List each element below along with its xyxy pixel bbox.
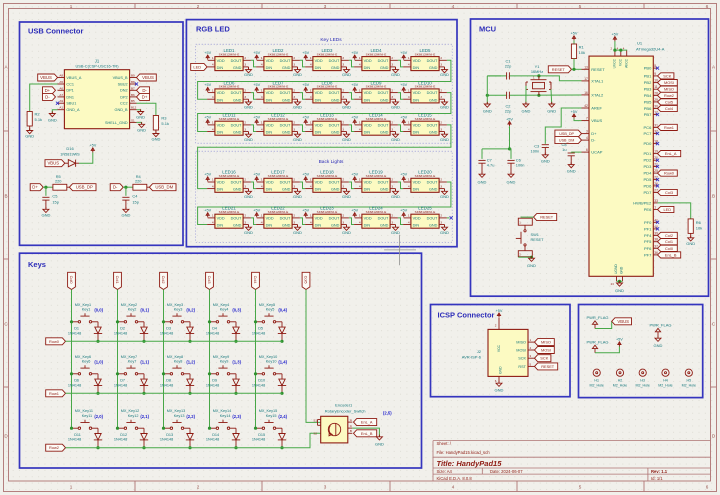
- svg-text:D2: D2: [120, 327, 125, 331]
- svg-text:Rev: 1.1: Rev: 1.1: [651, 469, 668, 474]
- svg-text:XTAL1: XTAL1: [591, 78, 604, 83]
- svg-text:4: 4: [212, 63, 214, 67]
- svg-text:2: 2: [440, 88, 442, 92]
- power +5V: [351, 116, 358, 125]
- power +5V: [351, 51, 358, 60]
- connector J2 AVR-ISP-6: [462, 318, 535, 383]
- junction: [234, 446, 237, 449]
- svg-text:A7: A7: [59, 93, 63, 97]
- ground: [244, 67, 253, 77]
- svg-text:ATmega32U4-A: ATmega32U4-A: [636, 47, 665, 52]
- svg-text:Col4: Col4: [665, 106, 674, 111]
- svg-text:10k: 10k: [696, 226, 702, 231]
- svg-text:M2_Hole: M2_Hole: [590, 383, 604, 387]
- svg-text:PWR_FLAG: PWR_FLAG: [586, 315, 608, 320]
- svg-text:+5V: +5V: [616, 338, 623, 342]
- wire DOUT to next DIN: [349, 125, 354, 132]
- svg-text:D7: D7: [120, 379, 125, 383]
- svg-text:MOSI: MOSI: [664, 80, 674, 85]
- svg-text:4: 4: [310, 127, 312, 131]
- net label D- (J1 left): [43, 93, 56, 100]
- svg-text:Col3: Col3: [207, 276, 212, 284]
- capacitor C7 4.7u: [478, 149, 494, 168]
- LED LED11 SK6812MINI-E: [207, 113, 251, 136]
- wire DOUT to next DIN: [398, 60, 403, 67]
- wire crystal case to ground: [525, 86, 527, 104]
- connector J1 USB-C(CSP-USC16-TR): [58, 58, 137, 128]
- svg-text:VDD: VDD: [413, 59, 421, 63]
- svg-text:22p: 22p: [505, 108, 512, 113]
- svg-text:SK6812MINI-E: SK6812MINI-E: [219, 210, 240, 214]
- svg-text:DOUT: DOUT: [231, 91, 242, 95]
- junction: [254, 427, 257, 430]
- net label EnL_B (U1 PF7): [658, 252, 681, 258]
- svg-text:Key8: Key8: [174, 359, 183, 363]
- svg-text:SK6812MINI-E: SK6812MINI-E: [366, 117, 387, 121]
- svg-text:5: 5: [579, 485, 582, 490]
- svg-text:3: 3: [391, 184, 393, 188]
- svg-text:Col0: Col0: [665, 246, 674, 251]
- wire DOUT to next DIN: [251, 182, 256, 189]
- mounting hole H4 M2_Hole: [658, 369, 672, 387]
- svg-text:42: 42: [584, 104, 588, 108]
- svg-text:Date: 2024-06-07: Date: 2024-06-07: [490, 469, 523, 474]
- svg-text:16MHz: 16MHz: [531, 69, 543, 74]
- svg-text:PF4: PF4: [644, 233, 652, 238]
- svg-text:EnL_A: EnL_A: [665, 151, 677, 156]
- wire R1 to RESET net: [573, 59, 575, 70]
- svg-text:3: 3: [293, 220, 295, 224]
- switch MX_Key7 Key7: [118, 355, 145, 379]
- svg-text:DN1: DN1: [66, 95, 74, 99]
- svg-text:GND: GND: [380, 224, 389, 228]
- svg-text:DOUT: DOUT: [231, 216, 242, 220]
- LED LED16 SK6812MINI-E: [207, 170, 251, 193]
- svg-text:3: 3: [342, 127, 344, 131]
- svg-text:3: 3: [342, 63, 344, 67]
- svg-text:R3: R3: [161, 116, 167, 121]
- svg-text:GND_B: GND_B: [115, 108, 129, 112]
- svg-text:1N4148: 1N4148: [252, 438, 265, 442]
- svg-text:3: 3: [391, 63, 393, 67]
- power +5V: [253, 173, 260, 182]
- svg-text:2: 2: [293, 214, 295, 218]
- svg-text:GND: GND: [342, 137, 351, 142]
- svg-text:J1: J1: [95, 58, 100, 63]
- svg-text:DOUT: DOUT: [427, 91, 438, 95]
- net label USB_DP (U1): [555, 130, 582, 137]
- LED LED25 SK6812MINI-E: [403, 206, 447, 229]
- svg-text:+5V: +5V: [204, 209, 211, 213]
- diode D11 1N4148: [68, 433, 102, 448]
- no-connect: [135, 82, 138, 85]
- svg-text:3: 3: [342, 184, 344, 188]
- svg-text:D6: D6: [74, 379, 79, 383]
- svg-text:+5V: +5V: [400, 116, 407, 120]
- wire +5V to VBUS pin: [574, 119, 582, 121]
- svg-text:MISO: MISO: [541, 340, 551, 345]
- svg-text:XTAL2: XTAL2: [591, 92, 604, 97]
- svg-text:GND: GND: [499, 366, 503, 374]
- ground: [686, 236, 695, 246]
- svg-text:AVR-ISP-6: AVR-ISP-6: [462, 355, 482, 360]
- svg-text:1: 1: [310, 121, 312, 125]
- svg-text:9: 9: [654, 72, 656, 76]
- wire DOUT to next DIN: [398, 125, 403, 132]
- svg-text:GND: GND: [137, 127, 146, 132]
- svg-text:1: 1: [212, 56, 214, 60]
- svg-text:2: 2: [244, 88, 246, 92]
- svg-text:D3: D3: [166, 327, 171, 331]
- svg-text:S2: S2: [313, 431, 317, 435]
- svg-text:GND: GND: [483, 108, 492, 113]
- power +5V: [302, 173, 309, 182]
- svg-text:GND: GND: [233, 98, 242, 102]
- switch MX_Key15 Key15: [256, 409, 283, 433]
- net label Row2 (U1 PB4): [658, 92, 678, 98]
- ground: [547, 102, 556, 114]
- wire XTAL2 net: [487, 94, 506, 96]
- svg-text:PD5: PD5: [644, 177, 653, 182]
- svg-text:2: 2: [244, 178, 246, 182]
- svg-text:1: 1: [654, 206, 656, 210]
- svg-text:PF6: PF6: [644, 246, 652, 251]
- svg-text:MX_Key6: MX_Key6: [75, 355, 91, 359]
- switch MX_Key2 Key2: [118, 303, 145, 327]
- wire column Col5 to encoder: [306, 290, 321, 423]
- wire HWB/PE2 to R6: [658, 203, 691, 219]
- diode D8 1N4148: [160, 379, 194, 394]
- ground: [244, 132, 253, 142]
- wire row Row1: [66, 392, 283, 394]
- LED LED12 SK6812MINI-E: [256, 113, 300, 136]
- svg-text:USB_DM: USB_DM: [155, 185, 173, 190]
- svg-text:GND: GND: [244, 72, 253, 77]
- svg-text:R2: R2: [35, 112, 41, 117]
- svg-text:2: 2: [391, 56, 393, 60]
- svg-text:PB7: PB7: [644, 112, 652, 117]
- svg-text:1N4148: 1N4148: [160, 331, 173, 335]
- svg-text:Col5: Col5: [665, 99, 673, 104]
- junction: [280, 392, 283, 395]
- svg-text:3: 3: [244, 220, 246, 224]
- svg-text:VDD: VDD: [364, 91, 372, 95]
- svg-text:100n: 100n: [516, 163, 525, 168]
- pin numbers LED14: [359, 121, 393, 132]
- pin numbers LED4: [359, 56, 393, 67]
- svg-text:MX_Key13: MX_Key13: [167, 409, 186, 413]
- wire D- to R4: [123, 186, 133, 188]
- svg-text:RESET: RESET: [591, 67, 605, 72]
- LED LED10 SK6812MINI-E: [403, 80, 447, 103]
- junction: [254, 320, 257, 323]
- wire column Col0: [71, 290, 73, 429]
- ground: [391, 67, 400, 77]
- svg-text:VDD: VDD: [217, 59, 225, 63]
- svg-text:Key11: Key11: [82, 414, 92, 418]
- svg-text:PB1: PB1: [644, 73, 652, 78]
- resistor R2 5.1k: [27, 112, 42, 131]
- svg-text:GND: GND: [151, 137, 160, 142]
- ground: [342, 189, 351, 199]
- wire PWR_FLAG to +5V: [595, 347, 619, 353]
- power +5V: [253, 51, 260, 60]
- svg-text:SK6812MINI-E: SK6812MINI-E: [219, 85, 240, 89]
- junction: [234, 340, 237, 343]
- diode D10 1N4148: [252, 379, 286, 394]
- svg-text:H4: H4: [663, 379, 668, 383]
- LED LED13 SK6812MINI-E: [305, 113, 349, 136]
- svg-text:GND: GND: [282, 224, 291, 228]
- svg-text:GND: GND: [342, 105, 351, 110]
- svg-text:4: 4: [408, 63, 410, 67]
- junction: [162, 372, 165, 375]
- net label SCK (U1 PB1): [658, 73, 674, 79]
- svg-text:VDD: VDD: [315, 59, 323, 63]
- net label VBUS (flag): [612, 318, 632, 325]
- ground: [342, 132, 351, 142]
- svg-text:6: 6: [706, 4, 709, 9]
- net label Row1 (row): [46, 390, 66, 397]
- svg-text:VDD: VDD: [217, 91, 225, 95]
- IC U1 ATmega32U4-A: [589, 40, 665, 276]
- power +5V: [616, 338, 623, 347]
- svg-text:UVCC: UVCC: [613, 58, 617, 68]
- net label Col0 (U1 PF6): [658, 245, 678, 251]
- net label Col3 (U1 PD7): [658, 189, 678, 195]
- diode D9 1N4148: [206, 379, 240, 394]
- svg-text:GND: GND: [547, 108, 556, 113]
- wire DOUT to next DIN: [398, 182, 403, 189]
- svg-text:PF0: PF0: [644, 220, 652, 225]
- ground: [440, 225, 449, 235]
- svg-text:LED: LED: [664, 207, 672, 212]
- svg-text:A5: A5: [59, 80, 63, 84]
- svg-text:M2_Hole: M2_Hole: [613, 383, 627, 387]
- svg-text:D13: D13: [166, 433, 173, 437]
- wire row wrap: [198, 60, 451, 99]
- capacitor: [542, 145, 549, 148]
- svg-text:DIN: DIN: [217, 131, 224, 135]
- svg-text:DIN: DIN: [266, 224, 273, 228]
- svg-text:PF1: PF1: [644, 226, 652, 231]
- svg-text:4: 4: [452, 4, 455, 9]
- svg-text:D10: D10: [258, 379, 265, 383]
- svg-text:MX_Key3: MX_Key3: [167, 303, 183, 307]
- switch MX_Key10 Key10: [256, 355, 283, 379]
- svg-text:GND: GND: [282, 188, 291, 192]
- svg-text:M2_Hole: M2_Hole: [636, 383, 650, 387]
- svg-text:23: 23: [611, 282, 615, 286]
- junction: [572, 68, 575, 71]
- svg-text:5: 5: [579, 4, 582, 9]
- svg-text:1: 1: [408, 88, 410, 92]
- svg-text:GND: GND: [527, 263, 536, 268]
- power flag PWR_FLAG (VBUS): [586, 315, 608, 329]
- net label LED (U1 PE6): [658, 206, 674, 212]
- section box USB Connector: [20, 22, 184, 245]
- power +5V: [496, 309, 503, 318]
- ground: [527, 256, 536, 268]
- wire to ground: [619, 281, 621, 283]
- mounting hole H3 M2_Hole: [636, 369, 650, 387]
- wire D- to C4: [125, 187, 127, 196]
- svg-text:Sheet: /: Sheet: /: [437, 441, 452, 446]
- diode D16 1N5819WS: [60, 146, 80, 167]
- net label EnL_A (encoder): [354, 419, 377, 426]
- pin numbers LED16: [212, 178, 246, 189]
- pin numbers LED17: [261, 178, 295, 189]
- section box ICSP Connector: [431, 305, 571, 397]
- junction: [44, 186, 47, 189]
- switch MX_Key11 Key11: [72, 409, 99, 433]
- svg-text:4: 4: [586, 136, 588, 140]
- LED LED5 SK6812MINI-E: [403, 48, 447, 71]
- svg-text:2: 2: [342, 178, 344, 182]
- svg-text:B7: B7: [131, 86, 135, 90]
- svg-text:Encoder1: Encoder1: [335, 403, 353, 408]
- svg-text:SK6812MINI-E: SK6812MINI-E: [415, 174, 436, 178]
- junction: [508, 147, 511, 150]
- svg-text:PD3: PD3: [644, 164, 653, 169]
- pins U1 left: [582, 65, 606, 154]
- svg-text:DOUT: DOUT: [427, 123, 438, 127]
- svg-text:Col0: Col0: [69, 276, 74, 285]
- wire row wrap: [198, 182, 451, 225]
- svg-text:GND: GND: [25, 134, 34, 139]
- wire DOUT to next DIN: [349, 182, 354, 189]
- svg-text:GND: GND: [429, 98, 438, 102]
- svg-text:Row1: Row1: [49, 391, 59, 396]
- pin numbers LED24: [359, 214, 393, 225]
- svg-text:1: 1: [408, 56, 410, 60]
- svg-text:1: 1: [212, 88, 214, 92]
- mounting hole H1 M2_Hole: [590, 369, 604, 387]
- svg-text:(2,2): (2,2): [186, 414, 195, 419]
- svg-text:A1: A1: [59, 106, 63, 110]
- power +5V: [302, 209, 309, 218]
- svg-text:RESET: RESET: [531, 237, 545, 242]
- svg-text:VDD: VDD: [315, 123, 323, 127]
- svg-text:GND: GND: [440, 194, 449, 199]
- svg-text:S1: S1: [131, 118, 135, 122]
- ground: [615, 281, 624, 293]
- ground: [507, 172, 516, 185]
- svg-text:VDD: VDD: [266, 91, 274, 95]
- svg-text:GND: GND: [233, 131, 242, 135]
- svg-text:GND: GND: [620, 266, 624, 274]
- junction: [96, 446, 99, 449]
- svg-text:2: 2: [440, 56, 442, 60]
- svg-text:+5V: +5V: [506, 117, 513, 121]
- pins U1 right: [633, 64, 658, 257]
- svg-text:Key12: Key12: [128, 414, 139, 418]
- no-connect: [656, 159, 659, 162]
- svg-text:Col4: Col4: [253, 276, 258, 285]
- svg-text:DIN: DIN: [315, 188, 322, 192]
- svg-text:2: 2: [391, 88, 393, 92]
- svg-text:1: 1: [359, 178, 361, 182]
- no-connect: [656, 184, 659, 187]
- svg-text:GND: GND: [567, 169, 576, 174]
- svg-text:LED: LED: [193, 64, 201, 69]
- svg-text:2: 2: [342, 121, 344, 125]
- power +5V: [506, 117, 513, 126]
- svg-text:R1: R1: [579, 44, 585, 49]
- svg-text:PC7: PC7: [644, 131, 653, 136]
- junction: [618, 280, 621, 283]
- power +5V: [204, 83, 211, 92]
- svg-text:VDD: VDD: [364, 181, 372, 185]
- svg-text:GND: GND: [429, 224, 438, 228]
- svg-text:B: B: [4, 194, 7, 199]
- svg-text:6: 6: [586, 148, 588, 152]
- crystal Y1 16MHz: [526, 64, 552, 95]
- capacitor C4 15p: [122, 197, 129, 200]
- svg-text:PF7: PF7: [644, 252, 652, 257]
- wire SHELL_GND to ground: [137, 122, 142, 124]
- ground: [391, 189, 400, 199]
- svg-text:DOUT: DOUT: [280, 216, 291, 220]
- junction: [70, 427, 73, 430]
- svg-text:D1: D1: [74, 327, 79, 331]
- section box MCU: [471, 19, 709, 296]
- ground: [293, 225, 302, 235]
- svg-text:+5V: +5V: [351, 209, 358, 213]
- svg-text:USB Connector: USB Connector: [28, 27, 84, 36]
- svg-text:DIN: DIN: [364, 224, 371, 228]
- svg-text:PB4: PB4: [644, 93, 652, 98]
- ground: [440, 189, 449, 199]
- net label Col1 (U1 PF5): [658, 239, 678, 245]
- svg-text:+5V: +5V: [204, 116, 211, 120]
- pin numbers LED10: [408, 88, 442, 99]
- svg-text:3: 3: [244, 184, 246, 188]
- svg-text:DIN: DIN: [266, 66, 273, 70]
- svg-text:(0,0): (0,0): [94, 308, 103, 313]
- svg-text:3: 3: [293, 95, 295, 99]
- svg-text:(2,5): (2,5): [383, 410, 392, 415]
- diode D7 1N4148: [114, 379, 148, 394]
- svg-text:SK6812MINI-E: SK6812MINI-E: [317, 117, 338, 121]
- svg-text:C5: C5: [52, 194, 57, 199]
- svg-text:10k: 10k: [579, 50, 585, 55]
- svg-text:GND: GND: [293, 137, 302, 142]
- svg-text:GND: GND: [48, 118, 57, 123]
- svg-text:Row0: Row0: [49, 339, 60, 344]
- svg-text:SBU2: SBU2: [118, 82, 128, 86]
- svg-text:2: 2: [342, 88, 344, 92]
- wire D+ to R5: [43, 186, 53, 188]
- svg-text:21: 21: [654, 163, 658, 167]
- svg-text:DIN: DIN: [413, 66, 420, 70]
- svg-text:D11: D11: [74, 433, 81, 437]
- net label Col0 (column): [68, 272, 76, 289]
- svg-text:+5V: +5V: [204, 173, 211, 177]
- svg-text:DOUT: DOUT: [427, 59, 438, 63]
- svg-text:D4: D4: [212, 327, 217, 331]
- resistor R3 5.1k: [153, 116, 169, 134]
- svg-text:DP2: DP2: [120, 95, 127, 99]
- svg-text:B12: B12: [131, 106, 137, 110]
- svg-text:C4: C4: [132, 194, 138, 199]
- svg-text:4: 4: [408, 220, 410, 224]
- svg-text:1: 1: [359, 121, 361, 125]
- svg-text:GND: GND: [41, 213, 50, 218]
- svg-text:1N4148: 1N4148: [160, 383, 173, 387]
- wire DOUT to next DIN: [300, 182, 305, 189]
- svg-text:B8: B8: [131, 80, 135, 84]
